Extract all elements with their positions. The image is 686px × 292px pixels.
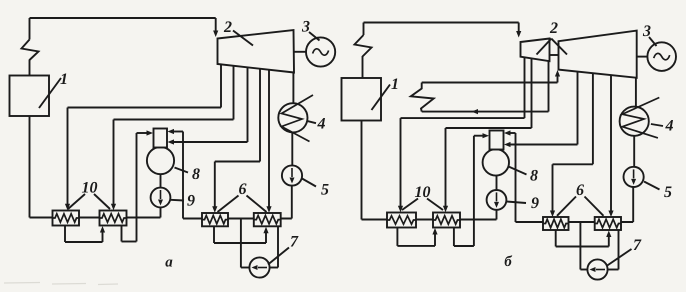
svg-text:8: 8	[530, 168, 538, 185]
svg-text:2: 2	[549, 20, 558, 37]
svg-text:7: 7	[290, 234, 299, 251]
svg-text:7: 7	[633, 237, 642, 254]
svg-text:1: 1	[391, 76, 399, 93]
svg-text:б: б	[504, 254, 512, 270]
svg-text:4: 4	[317, 116, 326, 133]
svg-text:1: 1	[60, 71, 68, 88]
svg-text:5: 5	[664, 184, 672, 201]
svg-text:8: 8	[192, 166, 200, 183]
svg-text:4: 4	[665, 118, 674, 135]
svg-text:5: 5	[321, 182, 329, 199]
svg-text:2: 2	[223, 19, 232, 36]
svg-text:9: 9	[187, 193, 195, 210]
svg-text:3: 3	[301, 19, 310, 36]
svg-text:а: а	[165, 255, 173, 271]
svg-text:9: 9	[531, 195, 539, 212]
svg-text:6: 6	[576, 182, 584, 199]
svg-text:6: 6	[239, 181, 247, 198]
